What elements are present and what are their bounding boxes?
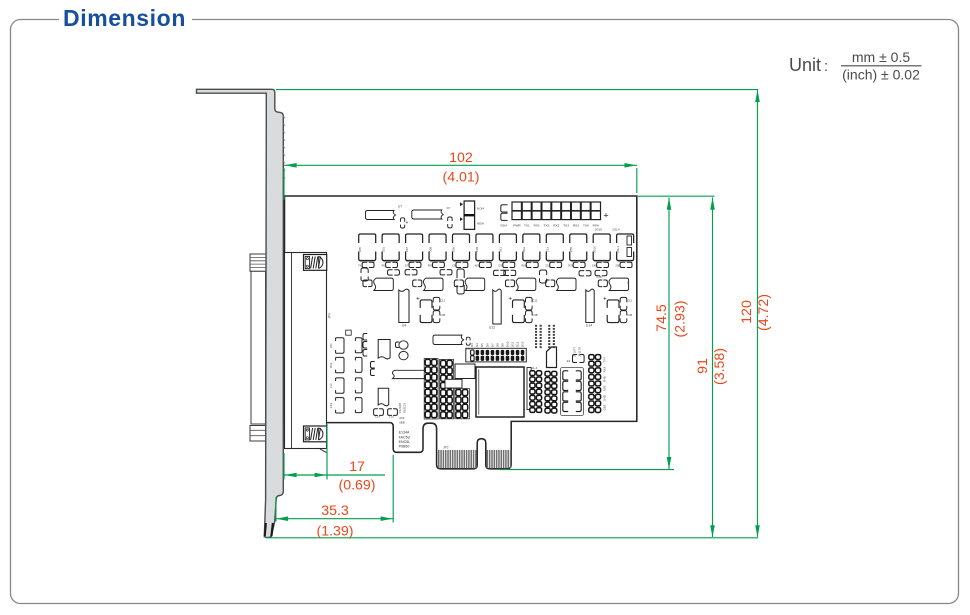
svg-text::: : — [824, 58, 828, 75]
svg-text:7C: 7C — [626, 281, 630, 284]
svg-text:R18C23: R18C23 — [402, 402, 406, 413]
svg-text:D10: D10 — [505, 341, 509, 347]
svg-text:D11: D11 — [499, 247, 503, 252]
svg-text:D9: D9 — [500, 343, 504, 347]
svg-text:0BB: 0BB — [399, 421, 405, 425]
svg-text:TX3: TX3 — [563, 223, 569, 227]
svg-text:C10: C10 — [389, 414, 395, 418]
svg-text:D4: D4 — [475, 343, 479, 347]
svg-text:(3.58): (3.58) — [712, 348, 728, 385]
svg-text:RX4: RX4 — [603, 366, 607, 372]
svg-text:+: + — [603, 296, 607, 303]
svg-text:C4B: C4B — [627, 313, 632, 317]
svg-text:25B: 25B — [616, 264, 621, 268]
svg-text:TX4: TX4 — [603, 357, 607, 363]
svg-text:mm ± 0.5: mm ± 0.5 — [852, 49, 910, 65]
svg-text:D3: D3 — [470, 343, 474, 347]
svg-text:R3B: R3B — [568, 264, 573, 268]
svg-text:U4: U4 — [402, 324, 406, 328]
svg-text:91: 91 — [695, 358, 711, 374]
svg-text:R62: R62 — [329, 362, 333, 368]
svg-text:JP2: JP2 — [443, 445, 449, 449]
svg-text:U14: U14 — [586, 324, 592, 328]
svg-text:Unit: Unit — [789, 55, 821, 75]
svg-text:GB2: GB2 — [603, 404, 607, 410]
svg-text:201S: 201S — [595, 228, 602, 232]
svg-text:E3: E3 — [567, 359, 571, 363]
svg-text:E134A: E134A — [399, 431, 410, 435]
svg-text:NOM: NOM — [477, 207, 485, 211]
svg-text:JP1170: JP1170 — [578, 347, 582, 357]
svg-text:+: + — [416, 296, 420, 303]
svg-text:D4B: D4B — [603, 395, 607, 401]
svg-text:TX2: TX2 — [544, 223, 550, 227]
svg-text:U1-4: U1-4 — [531, 366, 538, 370]
svg-text:D8: D8 — [495, 343, 499, 347]
svg-text:(1.39): (1.39) — [316, 524, 353, 540]
svg-text:2SL4: 2SL4 — [616, 246, 620, 253]
svg-text:Z13: Z13 — [546, 247, 550, 252]
svg-text:D6: D6 — [485, 343, 489, 347]
svg-text:JP4: JP4 — [328, 313, 332, 319]
svg-text:2SL4: 2SL4 — [612, 228, 620, 232]
svg-text:C4B: C4B — [532, 313, 537, 317]
svg-text:C4B: C4B — [596, 275, 601, 279]
svg-text:U7: U7 — [398, 205, 402, 209]
svg-text:Dimension: Dimension — [63, 5, 186, 31]
svg-text:120: 120 — [739, 300, 755, 324]
svg-text:D11: D11 — [510, 342, 514, 347]
svg-text:P0B50: P0B50 — [399, 445, 410, 449]
svg-text:C4B: C4B — [440, 313, 445, 317]
svg-text:R6: R6 — [382, 264, 386, 268]
svg-text:(inch) ± 0.02: (inch) ± 0.02 — [842, 67, 920, 83]
svg-text:D13: D13 — [520, 341, 524, 347]
svg-text:Z07: Z07 — [405, 247, 409, 252]
svg-text:(0.69): (0.69) — [338, 478, 375, 494]
svg-text:C12: C12 — [440, 299, 445, 303]
svg-text:(4.72): (4.72) — [756, 294, 772, 331]
svg-text:Z05: Z05 — [358, 247, 362, 252]
svg-text:Z1B: Z1B — [475, 247, 479, 252]
svg-text:JP1077: JP1077 — [573, 347, 577, 358]
svg-text:RX3: RX3 — [573, 223, 579, 227]
svg-text:C9: C9 — [452, 264, 456, 268]
svg-text:+: + — [508, 296, 512, 303]
svg-text:R0B: R0B — [522, 264, 527, 268]
svg-text:Z0A: Z0A — [522, 247, 526, 252]
svg-text:74.5: 74.5 — [654, 304, 670, 332]
svg-text:17: 17 — [349, 459, 365, 475]
svg-text:+: + — [406, 220, 409, 226]
svg-text:Z09: Z09 — [452, 247, 456, 252]
svg-text:Z11: Z11 — [545, 264, 550, 268]
svg-text:J04: J04 — [329, 343, 333, 348]
svg-text:K0B: K0B — [475, 264, 480, 268]
svg-text:U12: U12 — [489, 326, 495, 330]
svg-text:35.3: 35.3 — [321, 503, 349, 519]
svg-text:RX1: RX1 — [534, 223, 540, 227]
svg-text:NEW: NEW — [477, 222, 484, 226]
svg-text:TX1: TX1 — [524, 223, 530, 227]
svg-text:C35: C35 — [498, 264, 503, 268]
svg-text:R0B: R0B — [428, 264, 433, 268]
svg-text:92B: 92B — [603, 386, 607, 391]
svg-text:B4B: B4B — [603, 376, 607, 382]
svg-text:C04: C04 — [329, 403, 333, 409]
svg-text:102: 102 — [449, 150, 473, 166]
svg-text:ZB5: ZB5 — [569, 246, 573, 252]
svg-text:D12: D12 — [515, 341, 519, 347]
svg-text:D5: D5 — [480, 343, 484, 347]
svg-text:FAC5U: FAC5U — [399, 435, 411, 439]
svg-text:Z01: Z01 — [381, 247, 385, 252]
svg-text:TX4: TX4 — [583, 223, 589, 227]
svg-text:201S: 201S — [592, 246, 596, 253]
svg-text:ENC5L: ENC5L — [399, 440, 411, 444]
svg-text:R2M: R2M — [501, 224, 508, 228]
svg-text:C12: C12 — [533, 299, 538, 303]
svg-text:C12: C12 — [627, 299, 632, 303]
svg-text:D7: D7 — [405, 264, 409, 268]
svg-text:J13: J13 — [329, 383, 333, 388]
svg-text:C14: C14 — [375, 414, 381, 418]
svg-text:C4B: C4B — [592, 264, 597, 268]
svg-text:RX2: RX2 — [553, 223, 559, 227]
svg-text:PWR: PWR — [513, 223, 521, 227]
svg-text:D0B: D0B — [428, 247, 432, 253]
svg-text:R7: R7 — [447, 206, 451, 210]
svg-text:+: + — [603, 210, 608, 220]
svg-text:(2.93): (2.93) — [673, 300, 689, 337]
svg-text:A5F: A5F — [399, 416, 405, 420]
svg-text:(4.01): (4.01) — [442, 169, 479, 185]
svg-text:D7: D7 — [490, 343, 494, 347]
